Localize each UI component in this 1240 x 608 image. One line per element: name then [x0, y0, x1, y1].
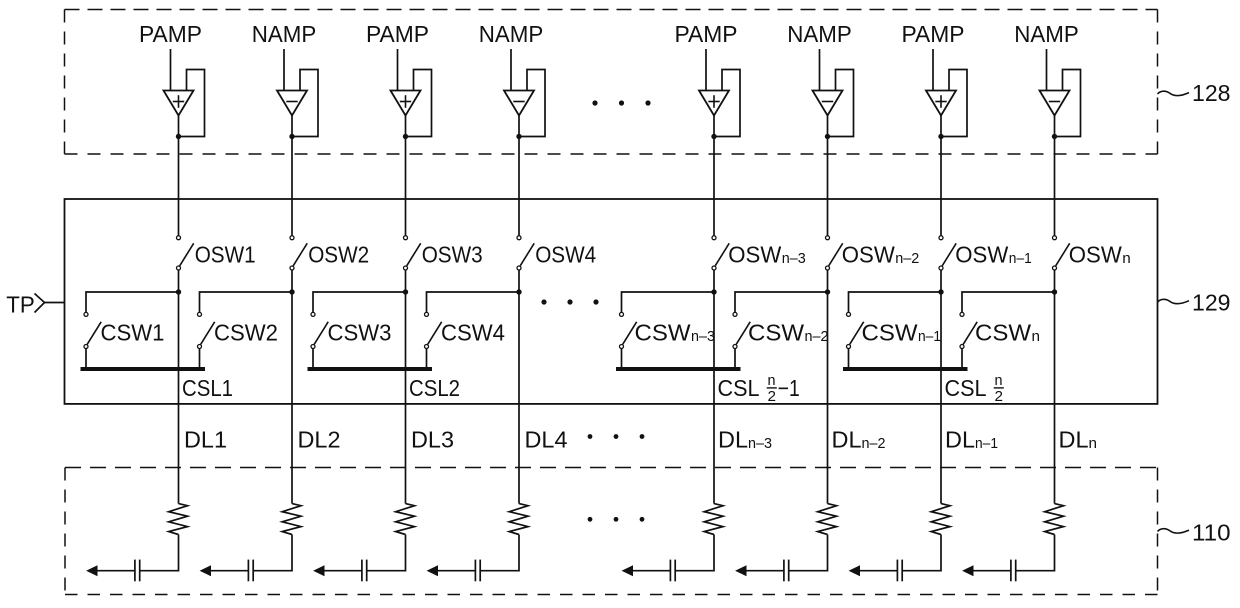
switch OSW1	[177, 236, 194, 270]
switch CSWn–1	[847, 312, 864, 348]
wire amp A1 input	[170, 49, 172, 91]
capacitor C4	[475, 560, 480, 582]
svg-text:DL1: DL1	[184, 426, 227, 452]
svg-text:−1: −1	[778, 375, 800, 401]
node J3 (DL3/CSW3 junction)	[403, 289, 408, 294]
op-amp A6 (NAMP)	[813, 91, 843, 116]
label CSWn–1	[862, 319, 942, 345]
capacitor C7	[897, 560, 902, 582]
wire J7 to switch CSWn–1	[849, 292, 942, 312]
wire CSWn to CSL bar	[961, 349, 963, 369]
node J7 (DLn–1/CSWn–1 junction)	[938, 289, 943, 294]
svg-text:PAMP: PAMP	[139, 21, 202, 47]
TP arrow symbol	[35, 294, 45, 313]
node J2 (DL2/CSW2 junction)	[289, 289, 294, 294]
resistor R8	[1045, 504, 1064, 535]
bus bar CSL 2	[308, 367, 433, 371]
wire C7 to arrowhead	[860, 570, 898, 572]
wire OSWn to node J8	[1054, 270, 1056, 294]
switch OSWn–3	[712, 236, 729, 270]
svg-text:DL: DL	[832, 426, 862, 452]
op-amp A3 (PAMP)	[391, 91, 421, 116]
switch CSW3	[311, 312, 328, 348]
wire DL3	[405, 294, 407, 504]
switch CSWn–2	[733, 312, 750, 348]
arrowhead (word line 8)	[962, 565, 973, 576]
node J5 (DLn–3/CSWn–3 junction)	[711, 289, 716, 294]
op-amp A5 (PAMP)	[699, 91, 729, 116]
wire DLn	[1054, 294, 1056, 504]
svg-text:n: n	[768, 372, 776, 389]
svg-text:129: 129	[1192, 290, 1231, 316]
wire amp A4 input	[510, 49, 512, 91]
svg-text:n–3: n–3	[691, 329, 715, 345]
wire A3 feedback loop	[406, 70, 432, 137]
switch OSWn–1	[939, 236, 956, 270]
label CSWn–2	[748, 319, 829, 345]
wire R8 to capacitor C8	[1016, 535, 1055, 571]
label DLn–2	[832, 426, 886, 452]
wire DL4	[518, 294, 520, 504]
ellipsis dots (amplifier row)	[592, 100, 650, 105]
svg-text:n–2: n–2	[895, 251, 919, 267]
svg-text:n–1: n–1	[1009, 251, 1032, 267]
svg-text:OSW2: OSW2	[308, 242, 369, 268]
svg-text:NAMP: NAMP	[479, 21, 544, 47]
bus bar CSL 4	[843, 367, 968, 371]
op-amp A7 (PAMP)	[926, 91, 956, 116]
wire DL2	[291, 294, 293, 504]
svg-text:n: n	[1032, 329, 1041, 345]
svg-text:CSL2: CSL2	[409, 375, 460, 401]
wire OSWn–1 to node J7	[940, 270, 942, 294]
svg-text:CSL1: CSL1	[182, 375, 233, 401]
wire OSW4 to node J4	[518, 270, 520, 294]
svg-text:NAMP: NAMP	[787, 21, 852, 47]
svg-text:n–2: n–2	[805, 329, 829, 345]
svg-text:CSL: CSL	[718, 375, 760, 401]
svg-text:OSW1: OSW1	[195, 242, 256, 268]
label DLn	[1059, 426, 1098, 452]
wire A7 feedback loop	[941, 70, 967, 137]
switch CSW2	[198, 312, 215, 348]
svg-text:PAMP: PAMP	[902, 21, 965, 47]
resistor R5	[704, 504, 723, 535]
label 129	[1158, 290, 1231, 316]
wire C5 to arrowhead	[633, 570, 671, 572]
op-amp A1 (PAMP)	[164, 91, 194, 116]
svg-text:n: n	[1089, 436, 1098, 452]
wire J3 to switch CSW3	[313, 292, 406, 312]
svg-text:TP: TP	[6, 291, 35, 317]
switch CSWn	[960, 312, 977, 348]
wire OSW2 to node J2	[291, 270, 293, 294]
svg-text:CSW: CSW	[975, 319, 1031, 345]
label OSWn–2	[842, 242, 920, 268]
wire DL1	[178, 294, 180, 504]
wire TP to box 129	[45, 302, 66, 304]
wire CSW1 to CSL bar	[85, 349, 87, 369]
node A4 output junction	[516, 134, 521, 139]
arrowhead (word line 7)	[849, 565, 860, 576]
svg-text:OSW3: OSW3	[422, 242, 483, 268]
wire CSW4 to CSL bar	[426, 349, 428, 369]
wire R2 to capacitor C2	[253, 535, 292, 571]
wire R6 to capacitor C6	[789, 535, 828, 571]
bus bar CSL 1	[81, 367, 206, 371]
wire J6 to switch CSWn–2	[735, 292, 828, 312]
svg-text:n–3: n–3	[748, 436, 772, 452]
wire A8 feedback loop	[1055, 70, 1081, 137]
arrowhead (word line 5)	[622, 565, 633, 576]
wire C4 to arrowhead	[438, 570, 476, 572]
svg-text:128: 128	[1192, 80, 1231, 106]
dashed box 110 (memory cell block)	[65, 468, 1158, 595]
svg-text:CSW2: CSW2	[214, 319, 278, 345]
wire J4 to switch CSW4	[427, 292, 520, 312]
capacitor C1	[135, 560, 140, 582]
wire R4 to capacitor C4	[480, 535, 519, 571]
svg-text:PAMP: PAMP	[366, 21, 429, 47]
wire C2 to arrowhead	[211, 570, 249, 572]
svg-text:CSW1: CSW1	[101, 319, 165, 345]
box 129 (switch block)	[65, 199, 1158, 404]
wire A4 feedback loop	[519, 70, 545, 137]
arrowhead (word line 1)	[86, 565, 97, 576]
wire amp A6 input	[819, 49, 821, 91]
wire C8 to arrowhead	[973, 570, 1011, 572]
svg-text:CSW: CSW	[862, 319, 918, 345]
wire A6 output to switch OSW6	[827, 116, 829, 236]
switch OSWn	[1053, 236, 1070, 270]
arrowhead (word line 6)	[735, 565, 746, 576]
svg-text:n: n	[1122, 251, 1131, 267]
wire A6 feedback loop	[828, 70, 854, 137]
resistor R6	[818, 504, 837, 535]
resistor R1	[169, 504, 188, 535]
wire A2 output to switch OSW2	[291, 116, 293, 236]
wire amp A5 input	[705, 49, 707, 91]
wire CSWn–3 to CSL bar	[621, 349, 623, 369]
ellipsis dots (DL label row)	[588, 434, 645, 439]
wire J1 to switch CSW1	[86, 292, 179, 312]
svg-text:2: 2	[995, 388, 1004, 405]
node A5 output junction	[711, 134, 716, 139]
svg-text:n–3: n–3	[782, 251, 806, 267]
op-amp A4 (NAMP)	[504, 91, 534, 116]
resistor R2	[282, 504, 301, 535]
label DLn–1	[945, 426, 998, 452]
wire R7 to capacitor C7	[902, 535, 941, 571]
capacitor C3	[362, 560, 367, 582]
wire R1 to capacitor C1	[140, 535, 179, 571]
wire J8 to switch CSWn	[962, 292, 1055, 312]
capacitor C5	[670, 560, 675, 582]
svg-text:OSW: OSW	[955, 242, 1008, 268]
wire CSWn–2 to CSL bar	[734, 349, 736, 369]
wire A1 feedback loop	[179, 70, 205, 137]
node A3 output junction	[403, 134, 408, 139]
capacitor C2	[248, 560, 253, 582]
node A1 output junction	[176, 134, 181, 139]
wire R5 to capacitor C5	[675, 535, 714, 571]
wire amp A2 input	[283, 49, 285, 91]
resistor R7	[931, 504, 950, 535]
svg-text:DL2: DL2	[298, 426, 341, 452]
svg-text:OSW: OSW	[842, 242, 895, 268]
wire C3 to arrowhead	[324, 570, 362, 572]
switch OSW2	[290, 236, 307, 270]
resistor R4	[509, 504, 528, 535]
node J1 (DL1/CSW1 junction)	[176, 289, 181, 294]
svg-text:OSW4: OSW4	[535, 242, 596, 268]
svg-text:DL3: DL3	[411, 426, 454, 452]
label DLn–3	[718, 426, 772, 452]
wire C6 to arrowhead	[746, 570, 784, 572]
capacitor C8	[1011, 560, 1016, 582]
node A8 output junction	[1052, 134, 1057, 139]
label CSL n/2	[945, 372, 1004, 405]
switch OSW4	[517, 236, 534, 270]
wire A2 feedback loop	[292, 70, 318, 137]
ellipsis dots (switch row)	[541, 299, 598, 304]
wire OSWn–2 to node J6	[827, 270, 829, 294]
svg-text:2: 2	[768, 388, 777, 405]
svg-text:CSW4: CSW4	[441, 319, 505, 345]
svg-text:NAMP: NAMP	[1014, 21, 1079, 47]
svg-text:n–1: n–1	[975, 436, 998, 452]
wire OSW1 to node J1	[178, 270, 180, 294]
wire amp A7 input	[932, 49, 934, 91]
svg-text:DL: DL	[945, 426, 975, 452]
svg-text:n–2: n–2	[862, 436, 886, 452]
node J8 (DLn/CSWn junction)	[1052, 289, 1057, 294]
svg-text:CSL: CSL	[945, 375, 987, 401]
node A2 output junction	[289, 134, 294, 139]
svg-text:NAMP: NAMP	[252, 21, 317, 47]
label 110	[1158, 519, 1231, 545]
wire CSW2 to CSL bar	[199, 349, 201, 369]
wire CSWn–1 to CSL bar	[848, 349, 850, 369]
wire DLn–3	[713, 294, 715, 504]
svg-text:CSW: CSW	[748, 319, 804, 345]
resistor R3	[396, 504, 415, 535]
wire CSW3 to CSL bar	[312, 349, 314, 369]
arrowhead (word line 3)	[313, 565, 324, 576]
op-amp A8 (NAMP)	[1040, 91, 1070, 116]
label CSL n/2-1	[718, 372, 800, 405]
svg-text:110: 110	[1192, 519, 1231, 545]
svg-text:DL4: DL4	[525, 426, 568, 452]
svg-text:OSW: OSW	[728, 242, 781, 268]
svg-text:n–1: n–1	[918, 329, 941, 345]
wire A5 feedback loop	[714, 70, 740, 137]
svg-text:DL: DL	[1059, 426, 1089, 452]
switch OSWn–2	[826, 236, 843, 270]
node A7 output junction	[938, 134, 943, 139]
svg-text:CSW3: CSW3	[328, 319, 392, 345]
svg-text:DL: DL	[718, 426, 748, 452]
node A6 output junction	[825, 134, 830, 139]
wire A5 output to switch OSW5	[713, 116, 715, 236]
switch CSW1	[84, 312, 101, 348]
wire amp A8 input	[1046, 49, 1048, 91]
wire A7 output to switch OSW7	[940, 116, 942, 236]
wire A8 output to switch OSW8	[1054, 116, 1056, 236]
wire A3 output to switch OSW3	[405, 116, 407, 236]
wire DLn–2	[827, 294, 829, 504]
svg-text:CSW: CSW	[635, 319, 691, 345]
svg-text:OSW: OSW	[1069, 242, 1122, 268]
dashed box 128 (amplifier block)	[65, 10, 1158, 155]
wire R3 to capacitor C3	[367, 535, 406, 571]
svg-text:n: n	[995, 372, 1003, 389]
wire OSWn–3 to node J5	[713, 270, 715, 294]
ellipsis dots (resistor row)	[588, 517, 645, 522]
label 128	[1158, 80, 1231, 106]
switch CSWn–3	[620, 312, 637, 348]
op-amp A2 (NAMP)	[277, 91, 307, 116]
node J6 (DLn–2/CSWn–2 junction)	[825, 289, 830, 294]
arrowhead (word line 4)	[427, 565, 438, 576]
switch CSW4	[425, 312, 442, 348]
label OSWn–3	[728, 242, 806, 268]
label OSWn	[1069, 242, 1131, 268]
wire J2 to switch CSW2	[200, 292, 293, 312]
svg-text:PAMP: PAMP	[675, 21, 738, 47]
bus bar CSL 3	[616, 367, 741, 371]
label CSWn	[975, 319, 1040, 345]
wire J5 to switch CSWn–3	[622, 292, 715, 312]
wire A4 output to switch OSW4	[518, 116, 520, 236]
wire amp A3 input	[397, 49, 399, 91]
capacitor C6	[784, 560, 789, 582]
switch OSW3	[404, 236, 421, 270]
wire DLn–1	[940, 294, 942, 504]
arrowhead (word line 2)	[200, 565, 211, 576]
wire A1 output to switch OSW1	[178, 116, 180, 236]
label OSWn–1	[955, 242, 1032, 268]
node J4 (DL4/CSW4 junction)	[516, 289, 521, 294]
wire OSW3 to node J3	[405, 270, 407, 294]
label CSWn–3	[635, 319, 716, 345]
wire C1 to arrowhead	[97, 570, 135, 572]
